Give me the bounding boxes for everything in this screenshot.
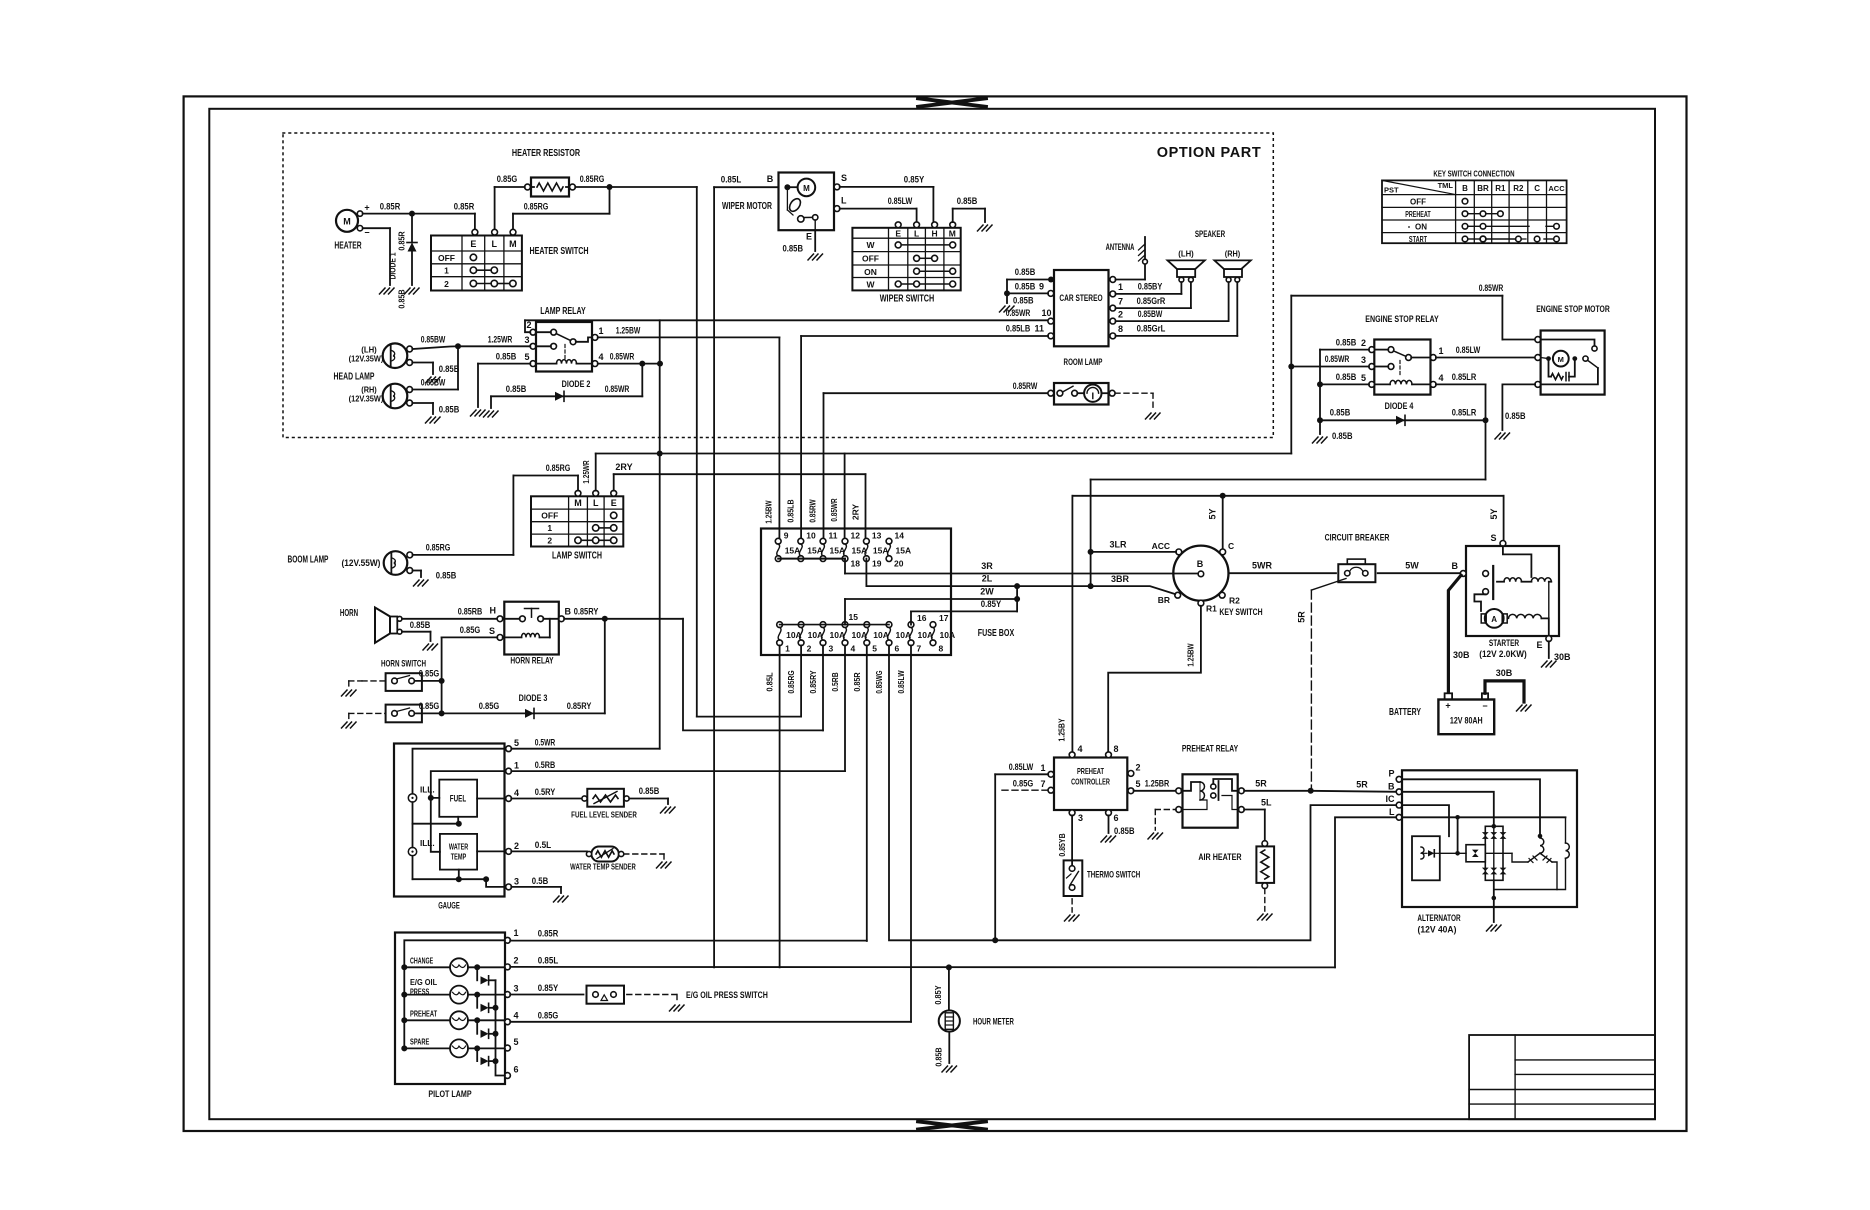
wire fuel sender ground 0.85B xyxy=(629,786,668,804)
svg-text:5WR: 5WR xyxy=(1252,561,1273,571)
svg-text:0.85BY: 0.85BY xyxy=(1138,282,1163,292)
svg-text:FUEL: FUEL xyxy=(450,794,467,804)
starter field coil xyxy=(1509,582,1552,636)
svg-text:2: 2 xyxy=(514,956,519,966)
head lamp RH xyxy=(349,384,413,409)
alternator L wire loop xyxy=(1402,815,1566,853)
svg-text:0.85B: 0.85B xyxy=(439,405,460,415)
svg-text:0.85Y: 0.85Y xyxy=(933,985,943,1005)
starter solenoid internals xyxy=(1474,546,1551,611)
wire 1.25BY preheat drop xyxy=(1057,496,1073,753)
svg-text:BOOM LAMP: BOOM LAMP xyxy=(288,555,329,566)
svg-text:0.85R: 0.85R xyxy=(380,202,401,212)
svg-text:7: 7 xyxy=(1118,297,1123,307)
svg-text:0.85G: 0.85G xyxy=(419,701,440,711)
svg-text:BATTERY: BATTERY xyxy=(1389,707,1421,718)
engine stop relay contacts xyxy=(1375,347,1431,377)
svg-text:4: 4 xyxy=(1439,373,1444,383)
svg-text:1: 1 xyxy=(1118,282,1123,292)
wire 0.85G resistor left xyxy=(495,174,525,230)
node heater junction xyxy=(409,211,415,217)
svg-text:1.25BW: 1.25BW xyxy=(1186,643,1196,667)
svg-text:5: 5 xyxy=(524,352,529,362)
wire 0.85LW wiper L xyxy=(840,196,917,221)
svg-text:2: 2 xyxy=(526,320,531,330)
node 5R junction xyxy=(1308,788,1314,794)
wire 3R fuse to key switch B xyxy=(845,561,1198,574)
svg-text:12V 80AH: 12V 80AH xyxy=(1450,716,1483,726)
horn switch 2 xyxy=(386,705,422,723)
wire ESR pin2 0.85B xyxy=(1320,337,1369,434)
svg-text:W: W xyxy=(866,240,875,250)
ground horn switch 1 xyxy=(342,690,357,696)
svg-text:12: 12 xyxy=(851,531,861,541)
svg-text:4: 4 xyxy=(514,1011,519,1021)
gauge box xyxy=(394,744,505,912)
svg-text:0.85B: 0.85B xyxy=(397,289,407,308)
svg-text:ILL.: ILL. xyxy=(420,839,435,848)
starter S terminal xyxy=(1490,533,1505,546)
svg-text:CIRCUIT BREAKER: CIRCUIT BREAKER xyxy=(1325,533,1390,544)
svg-text:0.85L: 0.85L xyxy=(765,672,775,691)
svg-text:15A: 15A xyxy=(785,546,801,556)
wire wiper switch M ground 0.85B xyxy=(953,196,985,222)
wiper switch label xyxy=(880,294,935,305)
svg-text:3: 3 xyxy=(514,984,519,994)
wire LH headlamp ground 0.85B xyxy=(412,363,459,375)
svg-text:10A: 10A xyxy=(918,630,934,640)
svg-text:M: M xyxy=(803,184,810,193)
svg-text:0.85B: 0.85B xyxy=(439,364,460,374)
svg-text:10A: 10A xyxy=(830,630,846,640)
svg-text:ENGINE STOP RELAY: ENGINE STOP RELAY xyxy=(1365,314,1439,325)
gauge internal wiring xyxy=(413,749,507,887)
svg-text:HEATER SWITCH: HEATER SWITCH xyxy=(529,246,588,257)
node diode4 right junction xyxy=(1483,417,1489,423)
node headlamp junction xyxy=(455,343,461,349)
svg-text:15: 15 xyxy=(849,612,859,622)
svg-text:HEATER: HEATER xyxy=(334,241,362,252)
wire lamp relay pin4 0.85WR xyxy=(598,352,660,364)
engine stop relay box xyxy=(1365,314,1439,395)
wire 2L 3BR to BR xyxy=(866,574,1175,595)
svg-text:HORN SWITCH: HORN SWITCH xyxy=(381,659,426,669)
ground lamp relay pin5 xyxy=(471,410,486,416)
svg-text:IC: IC xyxy=(1386,794,1396,804)
heater motor M xyxy=(336,203,370,238)
svg-text:2L: 2L xyxy=(982,574,993,584)
node stereo ground junction xyxy=(1004,290,1010,296)
svg-text:AIR HEATER: AIR HEATER xyxy=(1198,852,1241,863)
svg-text:0.85RY: 0.85RY xyxy=(808,670,818,693)
svg-text:6: 6 xyxy=(895,644,900,654)
wire stereo pin11 0.85LB xyxy=(801,324,1048,539)
node resistor RG junction xyxy=(607,184,613,190)
svg-text:8: 8 xyxy=(939,644,944,654)
svg-text:9: 9 xyxy=(1039,282,1044,292)
svg-text:5Y: 5Y xyxy=(1208,508,1218,519)
svg-text:+: + xyxy=(1445,701,1450,711)
diode D3 xyxy=(442,619,605,719)
svg-text:FUSE BOX: FUSE BOX xyxy=(978,628,1015,639)
engine stop motor switch xyxy=(1541,340,1599,385)
drawing outer border frame xyxy=(184,96,1687,1131)
wire LR run to key switch ACC xyxy=(1091,480,1486,587)
wire 2RY drop to fuse 13 xyxy=(851,474,866,538)
wire preheat pin3 0.85YB xyxy=(1057,815,1072,865)
battery xyxy=(1389,693,1494,734)
wire 5Y bus xyxy=(1072,496,1503,520)
svg-text:LAMP RELAY: LAMP RELAY xyxy=(540,306,586,317)
lamp switch contact row OFF xyxy=(611,512,617,518)
wire wiper E ground 0.85B xyxy=(783,230,816,253)
svg-text:4: 4 xyxy=(598,352,603,362)
svg-text:1.25BW: 1.25BW xyxy=(764,500,774,524)
svg-text:LAMP SWITCH: LAMP SWITCH xyxy=(552,551,602,562)
svg-text:R2: R2 xyxy=(1229,596,1240,606)
svg-text:2: 2 xyxy=(1361,338,1366,348)
diode D4 xyxy=(1320,401,1486,425)
wire ESR pin3 0.85WR xyxy=(1291,354,1369,367)
wire stereo pin9 0.85B xyxy=(1007,281,1048,293)
svg-text:8: 8 xyxy=(1114,744,1119,754)
wire 0.85L riser to alternator L xyxy=(1335,817,1401,967)
wire fuse4 0.5RB drop xyxy=(844,645,846,771)
svg-text:0.85Y: 0.85Y xyxy=(904,175,925,185)
heater label xyxy=(334,241,362,252)
svg-text:0.85B: 0.85B xyxy=(496,352,517,362)
wire 5L relay to air heater xyxy=(1244,798,1272,841)
svg-text:WIPER SWITCH: WIPER SWITCH xyxy=(880,294,935,305)
alternator labels xyxy=(1417,913,1460,936)
svg-text:SPARE: SPARE xyxy=(410,1037,430,1047)
heater switch terminals xyxy=(472,229,516,235)
svg-text:0.5RB: 0.5RB xyxy=(830,672,840,691)
starter armature A xyxy=(1481,609,1507,628)
svg-text:0.85WR: 0.85WR xyxy=(610,352,635,362)
wire ESR pin1 0.85LW xyxy=(1436,345,1535,358)
svg-text:2: 2 xyxy=(807,644,812,654)
svg-text:0.85LR: 0.85LR xyxy=(1452,372,1477,382)
wire WR net horizontal to stereo pin10 xyxy=(525,308,1052,320)
room lamp box xyxy=(1054,357,1109,405)
circuit breaker xyxy=(1325,533,1390,583)
svg-text:WATER TEMP SENDER: WATER TEMP SENDER xyxy=(570,862,636,872)
svg-text:E: E xyxy=(470,239,476,249)
svg-text:L: L xyxy=(1389,807,1395,817)
alternator stator coils xyxy=(1528,838,1557,890)
svg-text:0.85WR: 0.85WR xyxy=(1479,283,1504,293)
svg-text:1.25BY: 1.25BY xyxy=(1057,718,1067,741)
wire 0.85Y wiper S xyxy=(840,175,934,222)
svg-text:3R: 3R xyxy=(981,561,993,571)
svg-text:S: S xyxy=(841,173,847,183)
ground headlamp LH xyxy=(426,377,441,383)
svg-text:0.85G: 0.85G xyxy=(538,1010,559,1020)
svg-text:0.85B: 0.85B xyxy=(1336,337,1357,347)
svg-text:C: C xyxy=(1534,184,1540,193)
svg-text:ROOM LAMP: ROOM LAMP xyxy=(1064,357,1103,368)
fuse numbers 15 16 17 xyxy=(849,612,949,623)
node 3LR junction xyxy=(1088,549,1094,555)
svg-text:(12V 40A): (12V 40A) xyxy=(1418,925,1457,936)
wire starter E ground 30B xyxy=(1549,641,1571,662)
svg-text:0.85B: 0.85B xyxy=(506,384,527,394)
starter box xyxy=(1466,546,1559,636)
svg-text:0.85B: 0.85B xyxy=(1330,408,1351,418)
node horn switch junction 1 xyxy=(439,678,445,684)
svg-text:1.25WR: 1.25WR xyxy=(581,460,591,483)
wire pilot pin4 0.85G xyxy=(510,1010,911,1022)
svg-text:0.85RG: 0.85RG xyxy=(426,543,451,553)
wire horn relay S 0.85G xyxy=(442,625,498,713)
svg-text:0.5WR: 0.5WR xyxy=(535,738,556,748)
wire fuse 13 to 2L xyxy=(865,559,867,587)
wiper switch row ON contacts xyxy=(914,268,956,274)
svg-text:CAR STEREO: CAR STEREO xyxy=(1059,293,1102,304)
svg-text:10A: 10A xyxy=(852,630,868,640)
svg-text:0.85RB: 0.85RB xyxy=(458,606,483,616)
antenna xyxy=(1106,237,1148,280)
svg-text:4: 4 xyxy=(851,644,856,654)
boom lamp xyxy=(288,551,413,575)
heater resistor xyxy=(525,178,576,197)
horn relay pins xyxy=(489,607,572,641)
svg-text:18: 18 xyxy=(851,559,861,569)
svg-text:3: 3 xyxy=(514,877,519,887)
svg-text:STARTER: STARTER xyxy=(1489,638,1519,649)
svg-text:WIPER MOTOR: WIPER MOTOR xyxy=(722,201,773,212)
wire stereo pin1 0.85BY xyxy=(1116,282,1182,294)
lamp relay coil xyxy=(536,360,593,364)
svg-text:5: 5 xyxy=(1136,779,1141,789)
key switch B terminal xyxy=(1197,559,1204,577)
ground starter E xyxy=(1542,661,1557,667)
OPTION PART title xyxy=(1157,145,1262,161)
svg-text:DIODE 4: DIODE 4 xyxy=(1385,401,1414,411)
pilot lamp box xyxy=(395,933,505,1101)
svg-text:0.85G: 0.85G xyxy=(497,174,518,184)
svg-text:PREHEAT: PREHEAT xyxy=(1405,210,1431,219)
wire gauge pin4 0.5RY xyxy=(511,787,583,799)
diode D2 xyxy=(491,364,642,408)
wire 0.85RG to M terminal xyxy=(513,187,610,230)
wire stereo pin8 0.85GrL xyxy=(1116,282,1238,336)
svg-text:PREHEAT RELAY: PREHEAT RELAY xyxy=(1182,744,1239,755)
thermo switch xyxy=(1064,860,1141,896)
svg-text:PST: PST xyxy=(1384,186,1399,195)
wire 0.85RW room lamp to fuse 11 xyxy=(808,381,1049,539)
wire 0.85G to preheat pin7 dashed xyxy=(1002,779,1048,791)
wire ESM bottom ground 0.85B xyxy=(1502,384,1535,430)
wire 5R tap diagonal xyxy=(1297,579,1347,791)
svg-text:OFF: OFF xyxy=(541,511,558,521)
node wiper B junction xyxy=(784,184,790,190)
wire stereo pin2 0.85BW xyxy=(1116,282,1229,321)
alternator right field coil xyxy=(1494,843,1570,890)
ground heater xyxy=(380,288,395,294)
top center cut mark xyxy=(918,98,986,107)
svg-text:0.85RW: 0.85RW xyxy=(1013,381,1038,391)
wire lamp switch E 2RY xyxy=(614,462,866,491)
wire fuse3 0.85RY drop xyxy=(822,645,824,730)
svg-text:7: 7 xyxy=(917,644,922,654)
svg-text:HORN: HORN xyxy=(340,608,358,619)
wire horn switch1 dashed ground xyxy=(349,681,386,687)
pilot lamp diodes xyxy=(477,967,505,1075)
wire gauge pin5 0.5WR xyxy=(511,738,659,749)
pilot lamp PREHEAT xyxy=(401,1009,505,1030)
svg-text:B: B xyxy=(1452,561,1459,571)
svg-text:FUEL LEVEL SENDER: FUEL LEVEL SENDER xyxy=(571,810,637,820)
svg-text:0.85B: 0.85B xyxy=(436,571,457,581)
wire room lamp ground dashed xyxy=(1115,393,1153,410)
svg-text:0.85WR: 0.85WR xyxy=(1325,354,1350,364)
node WR lamp switch junction xyxy=(657,451,663,457)
horn relay coil xyxy=(503,619,550,638)
svg-text:DIODE 1: DIODE 1 xyxy=(388,252,398,279)
room lamp internals xyxy=(1048,385,1115,402)
speaker LH xyxy=(1168,249,1205,283)
svg-text:2RY: 2RY xyxy=(851,504,861,521)
svg-text:THERMO SWITCH: THERMO SWITCH xyxy=(1087,870,1140,880)
svg-text:E: E xyxy=(1536,640,1542,650)
alternator regulator box xyxy=(1412,836,1440,880)
ground wiper motor xyxy=(808,254,823,260)
svg-text:14: 14 xyxy=(895,531,905,541)
svg-text:S: S xyxy=(1490,533,1496,543)
gauge fuel meter xyxy=(439,780,477,817)
wiper switch row W2 contacts xyxy=(895,281,956,287)
svg-text:17: 17 xyxy=(939,613,949,623)
wire 2W from fuse xyxy=(845,587,1017,600)
wire pilot pin3 0.85Y xyxy=(510,983,583,995)
wire fuse7 0.85LW drop xyxy=(910,645,912,1021)
svg-text:3: 3 xyxy=(829,644,834,654)
svg-text:5R: 5R xyxy=(1297,611,1307,623)
key table PREHEAT contacts xyxy=(1462,211,1503,217)
svg-text:S: S xyxy=(489,626,495,636)
svg-text:0.85RG: 0.85RG xyxy=(524,202,549,212)
lamp switch contact row 2 xyxy=(575,537,617,543)
head lamp LH xyxy=(349,343,413,368)
svg-text:0.85L: 0.85L xyxy=(721,175,742,185)
gauge water temp meter xyxy=(440,834,477,870)
svg-text:0.85G: 0.85G xyxy=(419,669,440,679)
ground gauge pin3 xyxy=(554,896,569,902)
svg-text:DIODE 2: DIODE 2 xyxy=(562,379,591,389)
car stereo left pins xyxy=(1034,277,1054,339)
wire pilot pin2 0.85L xyxy=(510,956,1335,968)
svg-text:M: M xyxy=(343,217,351,227)
wire heater minus to ground 0.85B xyxy=(363,228,390,285)
ground preheat pin6 xyxy=(1101,836,1116,842)
svg-text:2: 2 xyxy=(1118,310,1123,320)
svg-text:30B: 30B xyxy=(1453,650,1470,660)
fuses 9-14 15A row xyxy=(775,531,911,562)
svg-text:ON: ON xyxy=(1415,223,1427,232)
svg-text:3: 3 xyxy=(1361,355,1366,365)
wire 5R relay to alternator B xyxy=(1244,779,1399,792)
svg-text:PRESS: PRESS xyxy=(410,987,430,997)
svg-text:E: E xyxy=(806,232,812,242)
preheat controller box xyxy=(1054,758,1127,811)
svg-text:ACC: ACC xyxy=(1548,184,1565,193)
drawing inner border frame xyxy=(209,109,1655,1119)
svg-text:0.85RG: 0.85RG xyxy=(546,463,571,473)
svg-text:2: 2 xyxy=(514,841,519,851)
pilot lamp E/G OIL PRESS xyxy=(401,977,505,1004)
svg-text:TEMP: TEMP xyxy=(451,852,467,862)
node diode4 left junction xyxy=(1317,417,1323,423)
svg-text:30B: 30B xyxy=(1496,668,1513,678)
svg-text:0.85RW: 0.85RW xyxy=(808,499,818,523)
gauge pins xyxy=(506,738,519,890)
head lamp label xyxy=(334,372,375,383)
wire oil press switch dashed ground xyxy=(627,995,677,1003)
preheat relay internals xyxy=(1181,779,1238,810)
svg-text:6: 6 xyxy=(514,1065,519,1075)
preheat controller top pins xyxy=(1069,744,1118,758)
diode D1 xyxy=(388,214,418,309)
alternator rectifier bridge xyxy=(1482,826,1507,880)
svg-text:4: 4 xyxy=(1078,744,1083,754)
svg-text:L: L xyxy=(914,228,919,238)
engine stop relay coil xyxy=(1375,380,1431,384)
svg-text:0.85G: 0.85G xyxy=(460,625,481,635)
wire 1.25BR preheat to relay xyxy=(1134,779,1176,791)
svg-text:0.85RG: 0.85RG xyxy=(580,174,605,184)
wire 0.85LB label at fuse xyxy=(786,499,796,522)
svg-text:0.85WR: 0.85WR xyxy=(829,498,839,521)
svg-text:OFF: OFF xyxy=(862,254,879,264)
svg-text:5: 5 xyxy=(1361,373,1366,383)
svg-text:0.85Y: 0.85Y xyxy=(538,983,559,993)
svg-text:0.85B: 0.85B xyxy=(1505,411,1526,421)
ground alternator xyxy=(1487,925,1502,931)
engine stop motor terminals xyxy=(1535,337,1541,388)
pilot lamp pins xyxy=(505,928,519,1078)
wiper motor box xyxy=(722,173,834,231)
heater switch table xyxy=(431,236,522,291)
wire 1.25BW drop to fuse 9 xyxy=(764,337,780,538)
svg-text:0.5RY: 0.5RY xyxy=(535,787,556,797)
svg-text:5W: 5W xyxy=(1405,561,1419,571)
svg-text:11: 11 xyxy=(829,531,838,541)
wire lamp switch L 1.25WR xyxy=(581,454,596,491)
ground water temp sender xyxy=(657,862,672,868)
wire boom lamp 0.85RG xyxy=(413,476,514,555)
svg-text:2: 2 xyxy=(1136,763,1141,773)
node pin4 diode2 junction xyxy=(639,361,663,367)
svg-text:10A: 10A xyxy=(873,630,889,640)
svg-text:R1: R1 xyxy=(1495,184,1506,193)
svg-text:E: E xyxy=(895,228,901,238)
gauge ILL lamp 2 xyxy=(408,839,434,856)
svg-text:0.85LB: 0.85LB xyxy=(786,499,796,522)
svg-text:GAUGE: GAUGE xyxy=(438,901,460,912)
heater switch contact row OFF xyxy=(470,254,476,260)
E/G oil press switch xyxy=(587,986,768,1004)
wire 1.25WR to lamp relay pin3 xyxy=(458,335,530,347)
svg-text:10: 10 xyxy=(1042,308,1052,318)
ground wiper switch M xyxy=(978,225,993,231)
wire RG bus vertical xyxy=(696,187,698,717)
wire horn ground 0.85B xyxy=(402,620,431,641)
wiper S terminal xyxy=(834,173,847,190)
svg-text:E: E xyxy=(611,498,617,508)
ground hour meter xyxy=(942,1066,957,1072)
